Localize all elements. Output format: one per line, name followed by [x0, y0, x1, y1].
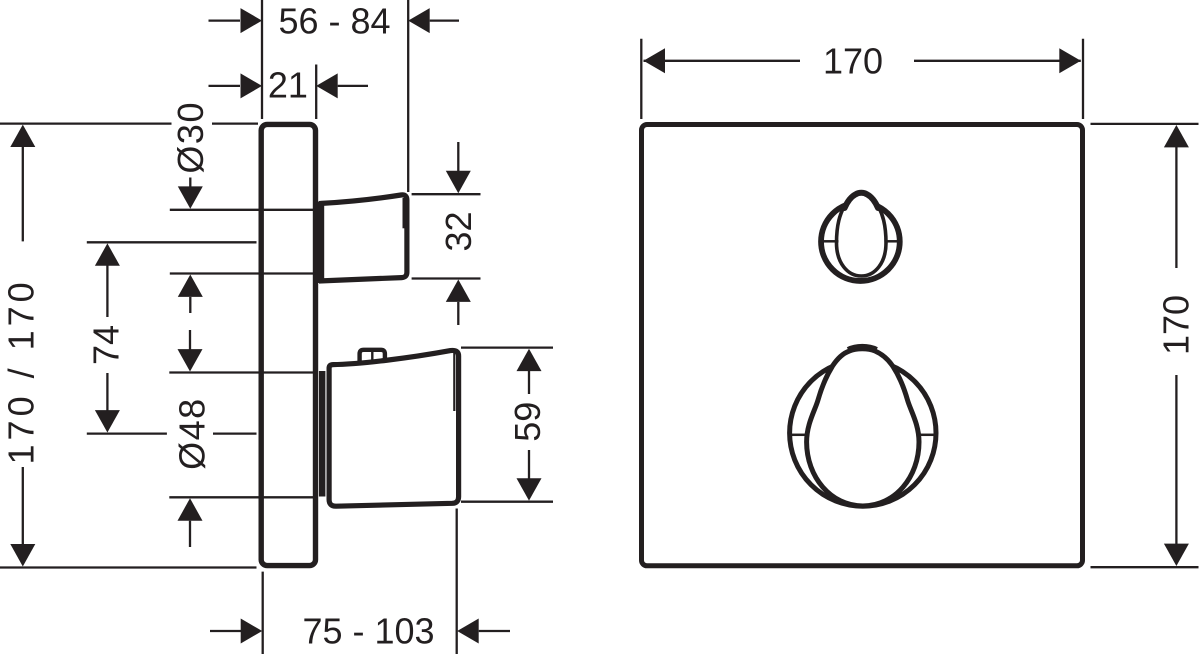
top handle body: [322, 195, 407, 281]
centre line of top handle: [87, 241, 257, 243]
dim 74 line: [106, 265, 108, 411]
small knob grip: [837, 193, 887, 276]
dim 21 right arrow: [316, 73, 338, 98]
dim 170/170 line: [22, 146, 24, 545]
large knob left tick: [791, 434, 806, 437]
dim 170 top line: [644, 60, 1081, 62]
small knob ring: [821, 202, 900, 281]
dim 59 line: [528, 370, 530, 480]
small knob left tick: [823, 240, 839, 243]
dim 75-103 right extension line: [456, 509, 458, 654]
dim 170 top right arrow: [1059, 48, 1081, 73]
small knob right tick: [887, 240, 900, 243]
svg-text:Ø30: Ø30: [170, 101, 211, 174]
safety button divider: [371, 351, 373, 365]
large knob ring: [790, 360, 936, 506]
dim 32 top extension line: [412, 193, 481, 195]
dim O30 bottom arrow: [178, 275, 203, 297]
dim 32 bottom extension line: [412, 277, 481, 279]
dim 170/170 bottom arrow: [10, 544, 35, 567]
bottom handle face line: [453, 352, 455, 412]
dim 74 bottom arrow: [95, 410, 120, 432]
svg-text:74: 74: [86, 325, 127, 365]
dim 74 top arrow: [95, 243, 120, 265]
wall plate side view: [261, 124, 315, 565]
dim 170/170 bottom extension line: [0, 566, 257, 568]
dim O48 top arrow: [189, 330, 191, 351]
dim O30 top arrow: [189, 178, 191, 189]
svg-text:170: 170: [823, 40, 883, 81]
dim 21 right extension line: [315, 65, 317, 120]
dim 170 right top arrow: [1164, 125, 1189, 147]
safety button: [360, 350, 385, 367]
svg-text:Ø48: Ø48: [171, 397, 212, 470]
dim 75-103 right arrow: [457, 619, 479, 644]
dim 75-103 left arrow: [210, 630, 241, 632]
small knob grip apex: [845, 193, 878, 208]
svg-text:170: 170: [1156, 295, 1197, 355]
dim 21 left arrow: [209, 85, 241, 87]
svg-text:32: 32: [438, 211, 479, 251]
dim 170/170 top arrow: [10, 125, 35, 147]
dim O30 top line: [170, 209, 317, 211]
dim O30 bottom line: [170, 272, 317, 274]
svg-text:21: 21: [268, 64, 308, 105]
dim 56-84 left arrow: [209, 19, 241, 21]
dim 170 top right extension line: [1082, 39, 1084, 119]
dim 75-103 left extension line: [262, 572, 264, 654]
dim 170/170 top extension line: [0, 122, 258, 124]
dim 170 right top extension line: [1091, 123, 1199, 125]
dim 170 top left arrow: [644, 48, 666, 73]
dim 56-84 left extension line: [261, 0, 263, 119]
dim 170 top left extension line: [640, 39, 642, 119]
large knob right tick: [920, 434, 935, 437]
bottom handle flange: [319, 371, 326, 497]
dim 59 top extension line: [461, 346, 553, 348]
bottom handle body: [329, 350, 459, 506]
svg-text:56 - 84: 56 - 84: [278, 1, 390, 42]
dim 59 top arrow: [517, 349, 542, 371]
dim O48 bottom arrow: [178, 498, 203, 520]
dim O48 top line: [169, 371, 316, 373]
dim 56-84 right arrow: [408, 8, 430, 33]
dim 170 right bottom arrow: [1164, 544, 1189, 566]
svg-text:59: 59: [507, 402, 548, 442]
dim 170 right bottom extension line: [1091, 566, 1199, 568]
svg-text:75 - 103: 75 - 103: [302, 610, 434, 651]
large knob grip: [807, 349, 919, 506]
svg-text:170 / 170: 170 / 170: [0, 278, 41, 464]
dim 32 bottom arrow: [446, 280, 471, 302]
top handle flange: [317, 202, 324, 284]
top handle face line: [403, 198, 405, 228]
dim 32 top arrow: [457, 142, 459, 173]
dim O48 bottom line: [169, 496, 316, 498]
dim 59 bottom arrow: [517, 478, 542, 500]
dim 170 right line: [1175, 146, 1177, 545]
dim 56-84 right extension line: [407, 0, 409, 192]
large knob grip cap: [848, 346, 877, 349]
centre line of bottom handle: [87, 432, 257, 434]
dim 59 bottom extension line: [461, 501, 553, 503]
front plate: [642, 125, 1083, 566]
